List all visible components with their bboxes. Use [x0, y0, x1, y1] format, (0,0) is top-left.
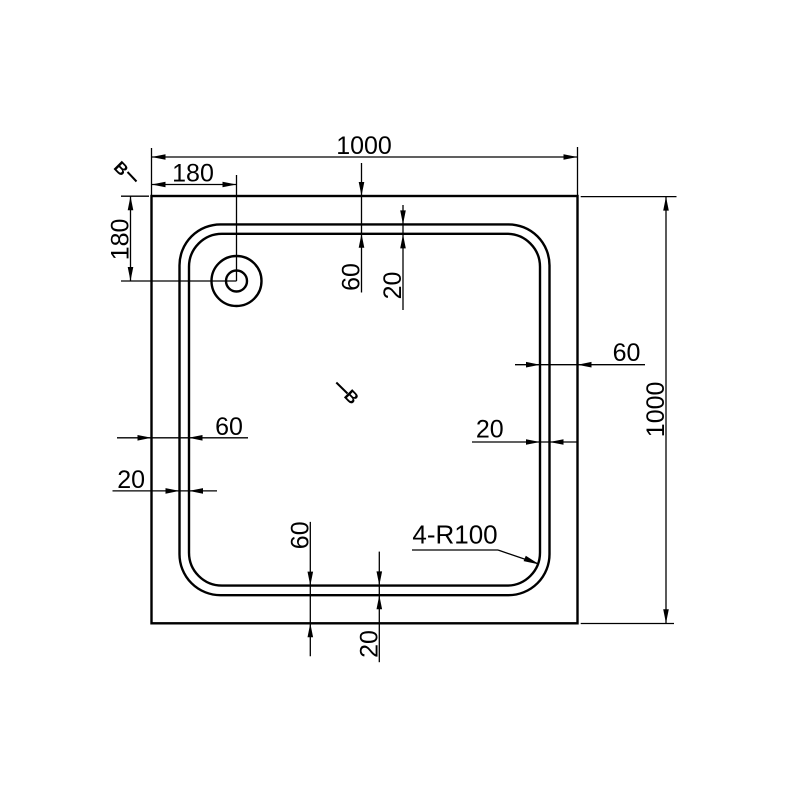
svg-text:180: 180 [107, 219, 135, 261]
svg-text:4-R100: 4-R100 [412, 520, 497, 550]
svg-text:180: 180 [172, 160, 214, 188]
svg-text:60: 60 [286, 521, 314, 549]
svg-text:20: 20 [379, 272, 407, 300]
svg-text:20: 20 [355, 630, 383, 658]
svg-text:20: 20 [117, 466, 145, 494]
svg-text:60: 60 [215, 413, 243, 441]
svg-text:60: 60 [338, 263, 366, 291]
svg-text:20: 20 [476, 416, 504, 444]
svg-text:1000: 1000 [642, 382, 670, 438]
svg-text:1000: 1000 [336, 132, 392, 160]
svg-text:60: 60 [613, 339, 641, 367]
